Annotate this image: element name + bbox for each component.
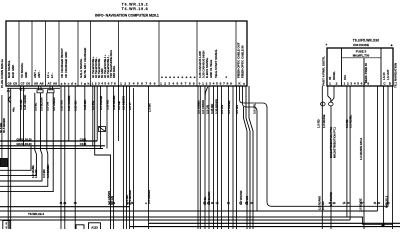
svg-text:GN.02.02.20: GN.02.02.20 [16, 137, 32, 141]
svg-text:0.35 GN: 0.35 GN [74, 101, 78, 111]
svg-text:0.35 BR/RD: 0.35 BR/RD [214, 99, 218, 114]
ring splice S2 [329, 102, 334, 106]
wire pin 1 down [92, 86, 94, 146]
wire pin f to bus [84, 86, 86, 146]
svg-text:X30 DIODE: X30 DIODE [353, 43, 369, 47]
wire pin A8 elbow to left edge 5 [0, 93, 53, 192]
svg-text:0.5 GR/GN: 0.5 GR/GN [147, 190, 151, 204]
wire with elbow via x=110.5 [95, 86, 111, 229]
svg-text:A7A8: A7A8 [48, 81, 58, 85]
wire U2 compC w2 to bus L2 [377, 86, 379, 211]
svg-text:12345678: 12345678 [344, 81, 370, 85]
bus GN.02 y=141 [0, 140, 97, 142]
svg-text:5: 5 [6, 225, 8, 229]
wire pin A5 elbow to left edge 1 [0, 93, 36, 176]
bus GN.03 y=145.8 [0, 145, 105, 147]
svg-text:1.5 BR: 1.5 BR [148, 103, 152, 112]
wire fuse in b to L4 [349, 86, 351, 220]
svg-text:30: 30 [387, 201, 390, 205]
svg-text:1.0 RD/SW X30.2: 1.0 RD/SW X30.2 [359, 137, 363, 160]
wire pin 6 down [118, 86, 120, 141]
svg-text:12: 12 [329, 81, 338, 85]
divider x=236 in U1 [235, 21, 237, 86]
wire pin A7 elbow to left edge 4 [0, 93, 48, 187]
svg-text:44: 44 [7, 89, 10, 93]
wire comp8 pin 1 to bottom [126, 86, 128, 229]
svg-text:ANT -: ANT - [37, 70, 41, 78]
svg-text:0.5 SW/BL: 0.5 SW/BL [227, 100, 231, 114]
svg-text:aaaaaaaaa: aaaaaaaaa [161, 75, 196, 79]
svg-text:T6.WR.19.8: T6.WR.19.8 [122, 7, 149, 11]
wire jog pin3 to ring S2 [331, 98, 334, 102]
divider x=59 in U1 [58, 21, 60, 86]
bus L6 [130, 226, 400, 228]
wire pin A6 stub [40, 86, 42, 90]
wire pin 4 down [106, 86, 108, 149]
wire CAN-H to bottom [208, 86, 210, 229]
wire ring splice to bottom [330, 106, 332, 229]
svg-text:INFO- NAVIGATION COMPUTER M26: INFO- NAVIGATION COMPUTER M26.1 [95, 14, 159, 18]
wire comp8 pin 2 to bottom [129, 86, 131, 229]
svg-text:C140: C140 [80, 142, 87, 146]
wire pin A6 elbow to left edge 3 [0, 93, 42, 181]
svg-text:0.5 WS: 0.5 WS [235, 105, 239, 114]
svg-text:0.35 WS: 0.35 WS [59, 100, 63, 111]
svg-text:0.5 GN/RD: 0.5 GN/RD [52, 97, 56, 111]
svg-text:0.5 RD/BL: 0.5 RD/BL [348, 114, 352, 128]
divider x=159 in U1 [158, 21, 160, 86]
svg-text:30: 30 [347, 201, 350, 205]
bus L4 [0, 219, 350, 221]
svg-text:0.5 VI: 0.5 VI [128, 102, 132, 110]
wire pin b to bottom [64, 86, 66, 229]
bus L3 [0, 216, 347, 218]
svg-text:30: 30 [251, 201, 254, 205]
svg-text:RD/BL: RD/BL [332, 71, 336, 80]
wire pin 3 down [100, 86, 102, 149]
divider x=45.5 in U1 [45, 21, 47, 86]
svg-text:30: 30 [74, 201, 77, 205]
svg-text:CD CHANGER GND: CD CHANGER GND [64, 52, 68, 78]
svg-text:0.5 BR/BK: 0.5 BR/BK [46, 164, 50, 178]
twisted pair bump on wire C8 [9, 97, 11, 103]
wire diagonal fan 2 [249, 86, 253, 229]
connector box U1 INFO-NAVIGATION COMPUTER M26.1 [6, 21, 247, 86]
wire through ring S1 [321, 102, 323, 106]
corner dot [391, 44, 393, 46]
svg-text:LA OUT: LA OUT [386, 69, 390, 80]
wire from pin C8 to bottom [10, 88, 12, 229]
svg-text:0.35 BN: 0.35 BN [83, 100, 87, 110]
divider x=118.5 in U1 [118, 21, 120, 86]
wire pin 5 to bottom [113, 86, 115, 229]
wire from pin C9 to bottom [7, 88, 9, 229]
wire SHLD pin K to bottom [236, 86, 238, 229]
svg-text:0.5 LWL: 0.5 LWL [252, 103, 256, 114]
svg-text:C7C6: C7C6 [21, 81, 31, 85]
svg-text:0.5 GE: 0.5 GE [117, 101, 121, 110]
svg-text:MUTE S/R / CHANGER: MUTE S/R / CHANGER [83, 48, 87, 78]
wire CAN-L to bottom [204, 86, 206, 229]
svg-text:1.0 RD: 1.0 RD [34, 169, 38, 178]
svg-text:44a: 44a [12, 107, 16, 112]
svg-text:PART 4 PWR. DISTR.: PART 4 PWR. DISTR. [322, 56, 326, 86]
wire pin A8 stub [52, 86, 54, 90]
svg-text:T6.1 NAVIGATION: T6.1 NAVIGATION [393, 63, 397, 88]
fuse block inner separator [342, 57, 382, 59]
svg-text:0.35 BR: 0.35 BR [210, 104, 214, 114]
bus L1 left segment [0, 206, 130, 208]
svg-text:FIBER-OPTIC CABLE IN: FIBER-OPTIC CABLE IN [241, 46, 245, 78]
wire SH to bottom [221, 86, 223, 229]
bus L2 [0, 210, 378, 212]
divider x=32 in U1 [31, 21, 33, 86]
svg-text:123456789: 123456789 [120, 81, 156, 85]
svg-text:TELE START SIGNAL: TELE START SIGNAL [214, 49, 218, 78]
ring splice S1 [321, 102, 326, 106]
divider x=90.5 in U1 [90, 21, 92, 86]
horizontal stub under U1 comp1 [7, 87, 60, 89]
svg-text:29: 29 [112, 201, 115, 205]
bottom left connector box X10 [3, 221, 10, 230]
wire comp10 pin 0 to bottom [197, 86, 199, 229]
right edge boundary line [392, 86, 394, 229]
wire comp8 pin 3 to bottom [133, 88, 135, 229]
wire elbow to left edge 2 [0, 146, 31, 171]
svg-text:HERF-TSNR 30: HERF-TSNR 30 [364, 63, 368, 83]
svg-text:GND: GND [24, 72, 28, 78]
curve hook on wire CAN-L [205, 87, 208, 100]
wire fuse out to bottom [363, 86, 365, 229]
splice box X12 [89, 223, 101, 231]
wire pin A7 stub [49, 86, 51, 90]
svg-text:29: 29 [63, 201, 66, 205]
svg-text:0.5 GN/BK: 0.5 GN/BK [196, 100, 200, 114]
staircase wire to right [347, 217, 393, 224]
wire pin 7 to bottom [122, 86, 124, 229]
svg-text:A5A6: A5A6 [34, 81, 44, 85]
arrow junction at L5 [381, 223, 385, 227]
svg-text:GN.02.03.20: GN.02.03.20 [16, 142, 32, 146]
wire pin A5 stub [38, 86, 40, 90]
svg-text:0.5 GE/SW: 0.5 GE/SW [122, 96, 126, 110]
svg-text:0123456789: 0123456789 [199, 81, 233, 85]
svg-text:0.35 RD: 0.35 RD [105, 100, 109, 110]
wire comp10 pin 1 to bottom [199, 86, 201, 229]
svg-text:A123: A123 [91, 225, 98, 229]
divider x=381 in U2 [380, 48, 382, 86]
wire U2 compA to ring [333, 86, 335, 98]
wire U2 pin1 to bottom [321, 86, 323, 229]
wire comp8 pin 9 to bottom [148, 86, 150, 229]
wire corner A pin to bus L1 [240, 86, 389, 206]
svg-text:0.35 WS/RD: 0.35 WS/RD [67, 95, 71, 111]
connector box U2 power distribution [327, 48, 393, 86]
svg-text:0.5 SW: 0.5 SW [91, 100, 95, 110]
left edge connector box X9 [0, 159, 8, 167]
fuse F5 element [363, 58, 365, 86]
wire fuse in a to L3 [346, 86, 348, 217]
wire pin c to bus [68, 86, 70, 141]
svg-text:fgh: fgh [81, 81, 90, 85]
divider x=19 in U1 [18, 21, 20, 86]
svg-text:15A: 15A [343, 75, 347, 80]
svg-text:T6.WR.19.2: T6.WR.19.2 [122, 2, 149, 6]
svg-text:15: 15 [216, 201, 219, 205]
svg-text:0.5 GN: 0.5 GN [46, 102, 50, 111]
wire pin C6 to bus GN.03 [23, 86, 25, 146]
svg-text:a: a [224, 76, 228, 78]
svg-text:Ka: Ka [238, 81, 245, 85]
svg-text:15: 15 [343, 201, 346, 205]
bus L5 [149, 222, 400, 224]
svg-text:abcde: abcde [61, 81, 77, 85]
svg-text:M6.DISTRIBUTION PT.1: M6.DISTRIBUTION PT.1 [333, 127, 337, 158]
inline connector on wires A7/A8 [48, 90, 55, 93]
svg-text:123456789: 123456789 [160, 81, 195, 85]
svg-text:GND 31 TELE: GND 31 TELE [209, 60, 213, 78]
svg-text:M6.MFL.T30: M6.MFL.T30 [353, 53, 370, 57]
wire K-BUS to bottom [213, 86, 215, 229]
svg-text:87: 87 [361, 201, 364, 205]
svg-text:C181: C181 [80, 137, 87, 141]
wire pin a to bottom [60, 86, 62, 229]
wire pin d to bottom [74, 86, 76, 229]
wire diagonal fan 1 [246, 86, 250, 229]
wire pin C7 to bus GN.02 [20, 86, 22, 141]
splice box X11 [76, 225, 84, 231]
svg-text:0.35 GR/RD: 0.35 GR/RD [23, 95, 27, 110]
bus 3 y=148.5 [0, 148, 103, 150]
svg-text:0.5 BL/GN: 0.5 BL/GN [39, 98, 43, 111]
wire pin 2 down [96, 86, 98, 141]
svg-text:0.5 OR/GN: 0.5 OR/GN [201, 100, 205, 114]
svg-text:1.5 RD: 1.5 RD [317, 119, 321, 128]
wire U2 pin2 upper [327, 86, 329, 96]
wire diagonal fan 3 [244, 107, 248, 229]
svg-text:LF -: LF - [50, 73, 54, 78]
svg-text:RXD DIAG: RXD DIAG [113, 66, 116, 78]
svg-text:30: 30 [211, 201, 214, 205]
svg-text:0.5 OR: 0.5 OR [205, 105, 209, 114]
wire comp10 pin 9 to bottom [232, 86, 234, 229]
svg-text:29: 29 [377, 201, 380, 205]
svg-text:30.5 BR/BK: 30.5 BR/BK [2, 118, 6, 133]
wire left edge to X5 [1, 95, 3, 159]
svg-text:CD: CD [383, 81, 392, 85]
svg-text:31: 31 [227, 201, 230, 205]
svg-text:29: 29 [333, 201, 336, 205]
wire corner B pin to bus L2 [243, 86, 258, 211]
wire jog pin2 to ring S2 [328, 96, 331, 102]
svg-text:C9C8: C9C8 [8, 81, 18, 85]
svg-text:0.5 BL: 0.5 BL [34, 102, 38, 111]
svg-text:0.5 SW/GE: 0.5 SW/GE [99, 96, 103, 110]
svg-text:+: + [325, 43, 327, 47]
wire U2 pin C to bus [387, 86, 389, 207]
svg-text:0.5 SW: 0.5 SW [220, 104, 224, 114]
svg-text:12345678: 12345678 [92, 81, 116, 85]
svg-text:RAD GND: RAD GND [11, 65, 15, 78]
svg-text:2.5 RD: 2.5 RD [321, 201, 325, 210]
wire U2 compC w3 down [383, 86, 385, 225]
svg-text:PLUG CONN M26.1a: PLUG CONN M26.1a [0, 59, 4, 88]
svg-text:0.35 RD/BL: 0.35 RD/BL [112, 95, 116, 110]
divider x=78 in U1 [77, 21, 79, 86]
divider x=197 in U1 [196, 21, 198, 86]
wire GND31 to bottom [217, 86, 219, 229]
svg-text:1.5 RD/GE: 1.5 RD/GE [322, 114, 326, 128]
svg-text:T6.WR.29.4: T6.WR.29.4 [28, 212, 44, 216]
inline connector on wires A5/A6 [37, 90, 43, 93]
wire comp10 pin 8 to bottom [228, 86, 230, 229]
divider x=341.5 in U2 [341, 48, 343, 86]
shield termination symbol [99, 127, 106, 132]
